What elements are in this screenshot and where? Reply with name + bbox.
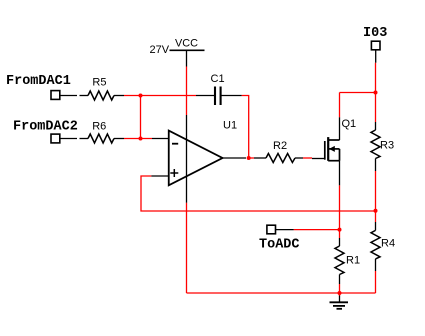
svg-text:R2: R2 xyxy=(273,140,287,152)
svg-text:R4: R4 xyxy=(381,238,395,250)
svg-text:27V: 27V xyxy=(150,44,170,56)
svg-text:R1: R1 xyxy=(346,255,360,267)
svg-text:I03: I03 xyxy=(363,26,387,41)
svg-text:FromDAC2: FromDAC2 xyxy=(13,120,78,135)
svg-text:Q1: Q1 xyxy=(342,118,357,130)
svg-text:VCC: VCC xyxy=(175,38,198,50)
svg-text:U1: U1 xyxy=(223,119,237,131)
svg-text:R3: R3 xyxy=(380,140,394,152)
svg-text:R6: R6 xyxy=(92,121,106,133)
svg-text:C1: C1 xyxy=(211,73,225,85)
svg-text:FromDAC1: FromDAC1 xyxy=(6,74,71,89)
svg-text:ToADC: ToADC xyxy=(259,238,300,253)
svg-text:R5: R5 xyxy=(92,77,106,89)
